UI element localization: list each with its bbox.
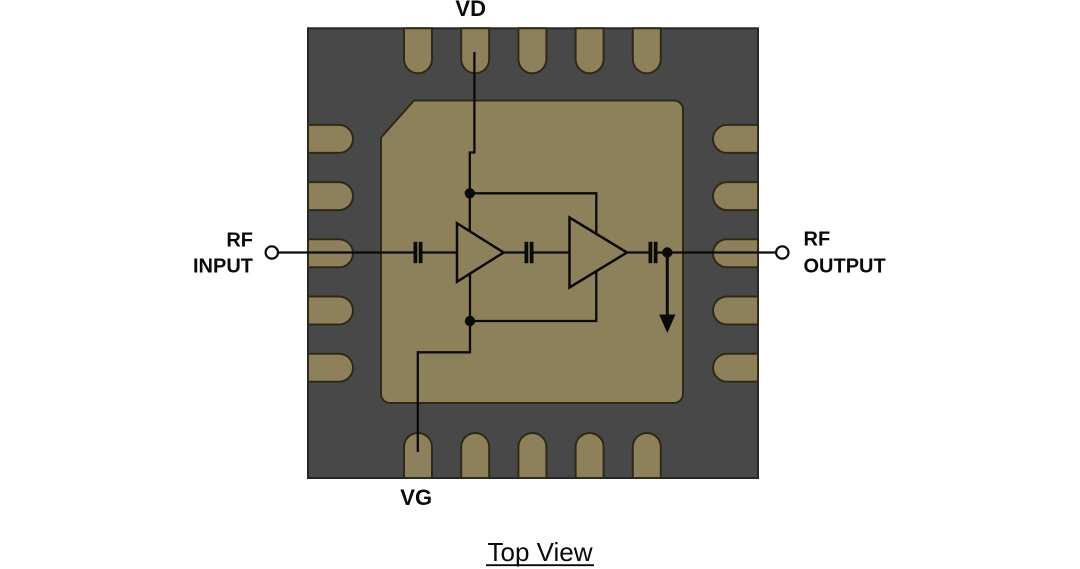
wire C2 to amp2 [533,251,569,253]
pad left 2 [308,182,353,210]
wire VG node to amp2 bottom [470,271,596,321]
pad left 1 [308,125,353,153]
pad bottom 4 [576,433,604,478]
pad left 5 [308,354,353,382]
wire input to C1 [278,251,414,253]
node VD junction [465,188,475,198]
node VG junction [465,316,475,326]
pad top 2 [461,28,489,73]
pad bottom 1 [404,433,432,478]
amplifier A1 [457,223,504,282]
pad top 3 [518,28,546,73]
pad right 2 [713,182,758,210]
wire amp1 bottom to VG node [469,274,471,322]
pad bottom 5 [633,433,661,478]
svg-text:Top View: Top View [487,537,592,567]
wire C3 to output [657,251,776,253]
pad right 4 [713,297,758,325]
label Top View underline [486,564,594,566]
pad right 1 [713,125,758,153]
capacitor C3 [650,242,655,263]
svg-text:VG: VG [400,485,432,510]
svg-text:RF: RF [226,229,253,251]
ground arrow stem [666,253,669,318]
svg-text:RF: RF [804,228,831,250]
wire VD vertical from pad [470,52,475,193]
package body [308,28,758,478]
wire C1 to amp1 [422,251,457,253]
svg-text:VD: VD [455,0,486,21]
svg-text:OUTPUT: OUTPUT [804,256,886,278]
capacitor C1 [415,242,420,263]
wire VG node to VG pad [418,321,470,452]
pad left 3 [308,239,353,267]
pad top 5 [633,28,661,73]
die paddle [381,101,683,404]
wire amp1 to C2 [504,251,525,253]
pad bottom 3 [518,433,546,478]
wire amp2 to C3 [627,251,649,253]
node output junction [662,247,672,257]
RF input terminal [266,246,278,258]
pad right 3 [713,239,758,267]
amplifier A2 [570,218,628,288]
wire VD to amp2 top [470,193,597,234]
RF output terminal [776,246,788,258]
svg-text:INPUT: INPUT [193,256,253,278]
ground arrow head [659,315,675,334]
pad right 5 [713,354,758,382]
wire VD to amp1 top [469,193,471,232]
pad left 4 [308,297,353,325]
pad top 1 [404,28,432,73]
pad bottom 2 [461,433,489,478]
capacitor C2 [526,242,531,263]
pad top 4 [576,28,604,73]
